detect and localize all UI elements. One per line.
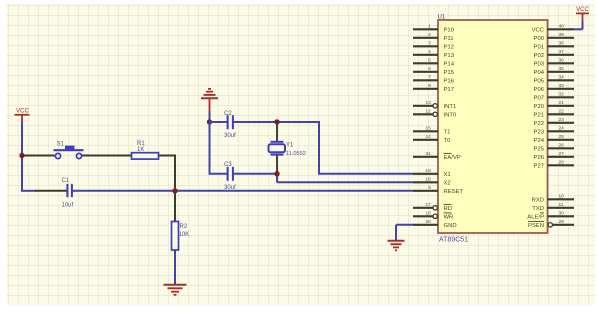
svg-text:INT1: INT1 <box>444 104 457 110</box>
pin 8 P17 (left) <box>413 83 454 93</box>
wire VCC stem up <box>582 21 584 29</box>
wire node D down to crystal top <box>276 122 278 142</box>
pin 39 P00 (right) <box>534 32 574 42</box>
pin 32 P07 (right) <box>534 92 574 102</box>
svg-text:P20: P20 <box>534 104 545 110</box>
svg-text:RXD: RXD <box>532 197 544 203</box>
svg-text:8: 8 <box>428 83 431 89</box>
pin 13 INT1 (left) <box>413 100 456 110</box>
wire C1 right plate to node B <box>72 190 175 192</box>
wire VCC stem down to node A <box>21 122 23 156</box>
svg-text:11.0592: 11.0592 <box>286 151 306 157</box>
pin 1 P10 (left) <box>413 24 455 34</box>
svg-text:INT0: INT0 <box>444 112 457 118</box>
svg-text:35: 35 <box>559 66 565 72</box>
pin 28 P27 (right) <box>534 160 574 170</box>
svg-text:RD: RD <box>444 206 453 212</box>
pin 37 P02 (right) <box>534 49 574 59</box>
svg-text:23: 23 <box>559 117 565 123</box>
svg-text:X1: X1 <box>444 172 451 178</box>
wire X1 net to IC pin 19 <box>318 173 413 175</box>
svg-text:P00: P00 <box>534 36 545 42</box>
svg-text:T1: T1 <box>444 129 451 135</box>
svg-text:EA/VP: EA/VP <box>444 155 461 161</box>
pin 9 RESET (left) <box>413 185 464 195</box>
pin 31 EA/VP (left) <box>413 151 461 161</box>
svg-text:38: 38 <box>559 41 565 47</box>
ground (below IC GND) <box>388 241 405 251</box>
svg-text:6: 6 <box>428 66 431 72</box>
wire node C down left side <box>209 122 211 174</box>
svg-text:P21: P21 <box>534 112 544 118</box>
svg-text:WR: WR <box>444 214 454 220</box>
svg-text:36: 36 <box>559 58 565 64</box>
wire RESET net: node B to IC pin 9 <box>175 190 413 192</box>
wire R2 to ground <box>174 250 176 284</box>
pin 27 P26 (right) <box>534 151 574 161</box>
svg-text:16: 16 <box>425 211 431 217</box>
pin 24 P23 (right) <box>534 126 574 136</box>
svg-text:P12: P12 <box>444 44 454 50</box>
pin 16 WR (left) <box>413 211 453 221</box>
svg-text:P27: P27 <box>534 163 544 169</box>
power symbol VCC (left) <box>15 109 30 123</box>
svg-text:P07: P07 <box>534 95 544 101</box>
svg-text:21: 21 <box>559 100 565 106</box>
svg-text:32: 32 <box>559 92 565 98</box>
wire ground stem to node C <box>209 111 211 122</box>
svg-text:11: 11 <box>559 202 564 208</box>
svg-text:7: 7 <box>428 75 431 81</box>
wire crystal bottom to node E <box>276 154 278 173</box>
pin 6 P15 (left) <box>413 66 455 76</box>
svg-text:12: 12 <box>425 109 431 115</box>
crystal Y1 11.0592 <box>269 142 306 157</box>
svg-text:13: 13 <box>425 100 431 106</box>
svg-text:30uf: 30uf <box>224 185 236 191</box>
svg-text:P23: P23 <box>534 129 545 135</box>
pin 7 P16 (left) <box>413 75 455 85</box>
op-amp/IC U1 AT89C51 body <box>438 20 548 233</box>
pin 33 P06 (right) <box>534 83 574 93</box>
svg-text:5: 5 <box>428 58 431 64</box>
wire corner down to node B <box>174 155 176 191</box>
pin 34 P05 (right) <box>534 75 574 85</box>
svg-text:GND: GND <box>444 223 457 229</box>
svg-text:U1: U1 <box>438 15 446 21</box>
pin 2 P11 (left) <box>413 32 454 42</box>
pin 17 RD (left) <box>413 202 452 212</box>
svg-text:30: 30 <box>559 211 565 217</box>
power symbol VCC (right) <box>576 7 589 21</box>
svg-text:14: 14 <box>425 134 431 140</box>
svg-text:P06: P06 <box>534 87 545 93</box>
svg-text:P03: P03 <box>534 61 545 67</box>
pin 26 P25 (right) <box>534 143 574 153</box>
pin 5 P14 (left) <box>413 58 455 68</box>
node B junction <box>172 188 177 193</box>
wire to C3 left plate <box>209 173 228 175</box>
node D junction <box>274 119 279 124</box>
wire node E jog down <box>276 174 278 183</box>
pin 29 PSEN (right) <box>528 219 574 229</box>
pin 22 P21 (right) <box>534 109 574 119</box>
pin 19 X1 (left) <box>413 168 451 178</box>
svg-text:P16: P16 <box>444 78 455 84</box>
svg-text:AT89C51: AT89C51 <box>439 237 468 244</box>
pin 3 P12 (left) <box>413 41 454 51</box>
pin 11 TXD (right) <box>532 202 574 212</box>
svg-text:4: 4 <box>428 49 431 55</box>
wire GND pin 20 to ground <box>396 224 413 226</box>
svg-text:PSEN: PSEN <box>528 223 544 229</box>
ground (above crystal circuit) <box>201 89 218 112</box>
svg-text:17: 17 <box>425 202 431 208</box>
svg-text:30uf: 30uf <box>224 133 236 139</box>
svg-text:P25: P25 <box>534 146 545 152</box>
svg-text:P17: P17 <box>444 87 454 93</box>
svg-text:X2: X2 <box>444 180 451 186</box>
svg-text:33: 33 <box>559 83 565 89</box>
svg-text:TXD: TXD <box>532 206 544 212</box>
svg-text:RESET: RESET <box>444 189 464 195</box>
svg-text:P04: P04 <box>534 70 545 76</box>
svg-text:37: 37 <box>559 49 565 55</box>
wire corner to C1 left plate <box>21 190 36 192</box>
wire corner down to X1 row <box>318 121 320 174</box>
pin 36 P03 (right) <box>534 58 574 68</box>
ground (below R2) <box>164 285 187 295</box>
svg-text:25: 25 <box>559 134 565 140</box>
pin 30 ALE/P (right) <box>527 211 574 221</box>
wire C3 right plate to node E <box>233 173 277 175</box>
capacitor C1 <box>62 178 74 209</box>
svg-text:P11: P11 <box>444 36 454 42</box>
svg-text:P24: P24 <box>534 138 545 144</box>
svg-text:34: 34 <box>559 75 565 81</box>
svg-text:Y1: Y1 <box>286 143 294 149</box>
pin 12 INT0 (left) <box>413 109 457 119</box>
svg-text:VCC: VCC <box>532 27 545 33</box>
svg-text:S1: S1 <box>57 142 65 148</box>
svg-text:31: 31 <box>425 151 431 157</box>
wire node C to C2 <box>210 121 228 123</box>
svg-text:ALE/P: ALE/P <box>527 214 544 220</box>
wire X2 net to IC pin 18 <box>277 181 413 183</box>
resistor R2 <box>172 222 190 251</box>
svg-text:VCC: VCC <box>576 7 589 13</box>
resistor R1 <box>132 141 159 159</box>
svg-text:20: 20 <box>425 219 431 225</box>
capacitor C2 <box>224 111 236 139</box>
svg-text:R2: R2 <box>180 224 188 230</box>
svg-text:P15: P15 <box>444 70 455 76</box>
pin 21 P20 (right) <box>534 100 574 110</box>
svg-text:P05: P05 <box>534 78 545 84</box>
pin 25 P24 (right) <box>534 134 574 144</box>
svg-text:P10: P10 <box>444 27 455 33</box>
capacitor C3 <box>224 162 236 191</box>
svg-text:P26: P26 <box>534 155 545 161</box>
svg-text:28: 28 <box>559 160 565 166</box>
svg-text:15: 15 <box>425 126 431 132</box>
pin 40 VCC (right) <box>532 24 574 34</box>
svg-text:26: 26 <box>559 143 565 149</box>
wire pin 40 to VCC stem <box>574 28 583 30</box>
pin 4 P13 (left) <box>413 49 455 59</box>
svg-text:C1: C1 <box>62 178 70 184</box>
svg-text:24: 24 <box>559 126 565 132</box>
svg-text:40: 40 <box>559 24 565 30</box>
node E junction <box>274 171 279 176</box>
svg-text:9: 9 <box>428 185 431 191</box>
pin 23 P22 (right) <box>534 117 574 127</box>
svg-text:10: 10 <box>559 194 565 200</box>
svg-text:3: 3 <box>428 41 431 47</box>
svg-text:1: 1 <box>428 24 431 30</box>
svg-text:29: 29 <box>559 219 565 225</box>
node A junction <box>19 153 24 158</box>
node C junction <box>207 119 212 124</box>
svg-text:10uf: 10uf <box>62 203 74 209</box>
pin 14 T0 (left) <box>413 134 451 144</box>
svg-text:10K: 10K <box>179 232 190 238</box>
pin 10 RXD (right) <box>532 194 574 204</box>
svg-text:T0: T0 <box>444 138 452 144</box>
pin 15 T1 (left) <box>413 126 450 136</box>
svg-text:VCC: VCC <box>16 109 29 115</box>
svg-text:18: 18 <box>425 177 431 183</box>
pin 35 P04 (right) <box>534 66 574 76</box>
svg-text:22: 22 <box>559 109 565 115</box>
svg-text:P01: P01 <box>534 44 544 50</box>
svg-text:P13: P13 <box>444 53 455 59</box>
switch S1 <box>54 142 84 159</box>
wire node B down to R2 <box>174 191 176 222</box>
svg-text:P14: P14 <box>444 61 455 67</box>
wire R1 to corner <box>159 155 177 157</box>
svg-text:P22: P22 <box>534 121 544 127</box>
pin 20 GND (left) <box>413 219 457 229</box>
wire node A down to C1 row <box>21 156 23 191</box>
wire S1 to R1 <box>82 155 132 157</box>
wire C2 to corner (through node D) <box>233 121 319 123</box>
svg-text:39: 39 <box>559 32 565 38</box>
pin 38 P01 (right) <box>534 41 574 51</box>
svg-text:2: 2 <box>428 32 431 38</box>
svg-text:19: 19 <box>425 168 431 174</box>
pin 18 X2 (left) <box>413 177 451 187</box>
svg-text:27: 27 <box>559 151 565 157</box>
wire node A to switch S1 <box>22 155 56 157</box>
svg-text:P02: P02 <box>534 53 544 59</box>
